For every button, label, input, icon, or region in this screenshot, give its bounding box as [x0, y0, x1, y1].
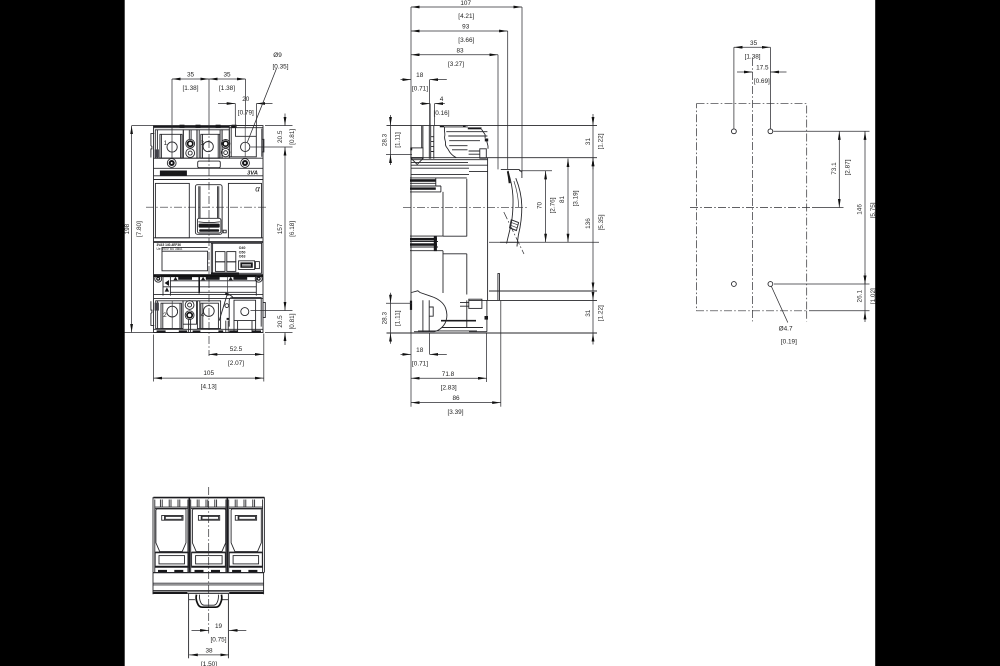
- svg-text:[2.07]: [2.07]: [228, 360, 244, 367]
- svg-text:86: 86: [452, 395, 460, 402]
- mid strip screws: [167, 159, 249, 168]
- svg-text:[1.22]: [1.22]: [598, 133, 605, 149]
- dim 17.5 plan: [737, 65, 787, 86]
- svg-text:70: 70: [536, 202, 543, 210]
- svg-text:[4.13]: [4.13]: [201, 384, 217, 391]
- dim 52.5: [209, 334, 264, 382]
- side centerline: [403, 206, 527, 208]
- svg-text:[0.69]: [0.69]: [754, 78, 770, 85]
- svg-text:3VA: 3VA: [247, 171, 258, 177]
- dim 70: [519, 171, 556, 243]
- plate right panel: [211, 243, 262, 274]
- svg-text:[0.71]: [0.71]: [412, 86, 428, 93]
- terminal 3 box: [197, 130, 222, 158]
- svg-text:136: 136: [585, 218, 592, 229]
- dim 190 height: [121, 126, 154, 333]
- svg-text:[2.87]: [2.87]: [845, 159, 852, 175]
- dim 157 right: [277, 147, 296, 310]
- svg-text:[0.81]: [0.81]: [289, 129, 296, 145]
- dim 105: [154, 335, 264, 391]
- svg-text:O63: O63: [239, 255, 246, 259]
- svg-text:4: 4: [201, 312, 205, 319]
- drilling plan outline: [690, 58, 812, 321]
- side bottom boot: [410, 291, 447, 332]
- pole C cover: [231, 509, 261, 552]
- svg-text:[1.50]: [1.50]: [201, 661, 217, 666]
- dim 18 bottom: [401, 334, 447, 407]
- side fin stack mid: [410, 236, 443, 251]
- terminal 6 lug: [227, 298, 262, 333]
- side escutcheon: [500, 169, 522, 246]
- svg-text:Ø4.7: Ø4.7: [779, 326, 793, 333]
- svg-text:[0.71]: [0.71]: [412, 360, 428, 367]
- dim 28.3 bottom left: [381, 293, 412, 344]
- svg-text:3: 3: [200, 140, 204, 147]
- pole A fins: [155, 500, 188, 509]
- side top lug: [410, 126, 423, 165]
- dim 26.1: [809, 273, 877, 322]
- svg-text:73.1: 73.1: [831, 162, 838, 175]
- dim 107 depth: [411, 0, 522, 172]
- dim 18 top: [401, 72, 447, 125]
- dim 20.5 top right: [251, 114, 297, 148]
- 3VA label: [247, 171, 258, 177]
- side fin stack top: [410, 178, 441, 192]
- pole C fins: [229, 500, 263, 509]
- dim 31 top right: [585, 114, 605, 169]
- svg-text:Ø9: Ø9: [273, 52, 282, 59]
- top module circles a: [183, 130, 197, 158]
- svg-text:31: 31: [585, 138, 592, 146]
- svg-text:20: 20: [242, 96, 250, 103]
- breaker outline front: [154, 126, 264, 333]
- svg-text:81: 81: [559, 196, 566, 204]
- svg-text:[0.79]: [0.79]: [238, 109, 254, 116]
- dim 136: [585, 158, 605, 291]
- handle chute: [195, 185, 222, 235]
- pole B cover: [192, 509, 225, 552]
- terminal 5 cover box: [229, 126, 256, 157]
- dim 83: [411, 47, 498, 169]
- dim 20 slot: [218, 96, 273, 126]
- svg-text:[3.19]: [3.19]: [572, 190, 579, 206]
- svg-text:[0.81]: [0.81]: [289, 313, 296, 329]
- svg-text:[1.38]: [1.38]: [183, 85, 199, 92]
- svg-text:35: 35: [750, 40, 758, 47]
- svg-text:[1.11]: [1.11]: [395, 310, 402, 326]
- dim 93: [411, 24, 508, 170]
- svg-text:18: 18: [416, 347, 424, 354]
- svg-text:[1.11]: [1.11]: [395, 132, 402, 148]
- svg-text:26.1: 26.1: [857, 290, 864, 303]
- svg-text:[2.76]: [2.76]: [549, 197, 556, 213]
- dim 81: [489, 159, 599, 243]
- dim 38: [189, 648, 229, 666]
- svg-text:83: 83: [456, 47, 464, 54]
- dim 35 right poles: [209, 72, 246, 126]
- side top screw access: [429, 126, 486, 159]
- svg-text:[1.22]: [1.22]: [598, 305, 605, 321]
- dim 31 bottom right: [585, 289, 605, 345]
- dim 146: [774, 131, 877, 284]
- bottom view outline: [153, 497, 264, 572]
- svg-text:20.5: 20.5: [277, 130, 284, 143]
- bottom feet tabs: [157, 330, 261, 332]
- svg-text:[3.27]: [3.27]: [448, 61, 464, 68]
- SIEMENS label: [160, 171, 187, 176]
- svg-text:[4.21]: [4.21]: [458, 13, 474, 20]
- terminal 1 box: [155, 130, 184, 158]
- svg-text:2: 2: [163, 312, 167, 319]
- svg-text:[3.66]: [3.66]: [458, 37, 474, 44]
- pole B terminal block: [192, 552, 226, 572]
- body bands: [153, 572, 264, 594]
- svg-text:[0.16]: [0.16]: [434, 110, 450, 117]
- svg-text:[1.38]: [1.38]: [219, 85, 235, 92]
- dim 35 plan: [734, 40, 771, 129]
- svg-text:[1.38]: [1.38]: [745, 53, 761, 60]
- side inner verticals: [436, 178, 467, 328]
- svg-text:[7.80]: [7.80]: [136, 221, 143, 237]
- dim 71.8: [411, 334, 487, 392]
- svg-text:α: α: [255, 185, 260, 194]
- dim 86: [411, 301, 501, 416]
- svg-text:105: 105: [203, 370, 214, 377]
- pole A cover: [156, 509, 186, 552]
- mounting hole bottom right: [768, 282, 773, 287]
- svg-text:35: 35: [187, 72, 195, 79]
- svg-text:[0.19]: [0.19]: [781, 339, 797, 346]
- rating strip: [155, 275, 263, 295]
- svg-text:17.5: 17.5: [756, 65, 769, 72]
- handle grip hatched: [510, 220, 519, 231]
- svg-text:35: 35: [223, 72, 231, 79]
- svg-text:20.5: 20.5: [277, 315, 284, 328]
- right black sidebar: [875, 0, 1000, 666]
- svg-text:[3.39]: [3.39]: [448, 409, 464, 416]
- dim 35 left poles: [172, 72, 209, 158]
- svg-text:93: 93: [462, 24, 470, 31]
- svg-text:4: 4: [440, 96, 444, 103]
- handle axis centerline: [504, 212, 524, 254]
- svg-text:[6.18]: [6.18]: [289, 221, 296, 237]
- side bottom screw: [460, 299, 482, 308]
- plate left texts: [157, 243, 184, 251]
- svg-text:198: 198: [124, 223, 131, 234]
- svg-text:157: 157: [277, 223, 284, 234]
- svg-text:28.3: 28.3: [381, 312, 388, 325]
- mounting hole bottom left: [732, 282, 737, 287]
- top module circles b: [221, 130, 229, 158]
- mounting hole top right: [768, 129, 773, 134]
- svg-text:28.3: 28.3: [381, 133, 388, 146]
- dim 19: [192, 623, 247, 643]
- side outline main lines: [387, 126, 598, 333]
- handle grip: [197, 218, 226, 233]
- svg-text:[5.35]: [5.35]: [598, 214, 605, 230]
- svg-text:52.5: 52.5: [230, 346, 243, 353]
- side foot: [418, 300, 488, 331]
- side top terminal boot: [440, 125, 488, 157]
- left face panel: [155, 183, 189, 237]
- dim 28.3 top left: [381, 115, 412, 165]
- plate label window: [162, 247, 208, 270]
- svg-text:18: 18: [416, 72, 424, 79]
- right face panel: [228, 183, 261, 237]
- bottom view centerline: [208, 487, 210, 634]
- svg-text:19: 19: [215, 623, 223, 630]
- pole C terminal block: [229, 552, 262, 572]
- svg-text:71.8: 71.8: [442, 371, 455, 378]
- svg-text:38: 38: [205, 648, 213, 655]
- dim dia4.7 leader: [771, 286, 797, 346]
- svg-text:[2.83]: [2.83]: [441, 384, 457, 391]
- cable slant edge: [219, 293, 233, 333]
- side ears: [151, 129, 265, 326]
- dim 73.1: [812, 131, 852, 207]
- bottom module circles: [183, 301, 197, 333]
- left black sidebar: [0, 0, 125, 666]
- dim dia9 leader: [247, 52, 288, 142]
- mounting hole top left: [732, 129, 737, 134]
- side bottom lug: [423, 300, 433, 332]
- terminal 4 box: [197, 301, 220, 329]
- svg-text:146: 146: [857, 204, 864, 215]
- center lines front: [146, 79, 268, 356]
- pole B fins: [191, 500, 226, 509]
- svg-text:SIEMENS: SIEMENS: [165, 171, 183, 176]
- svg-text:[0.35]: [0.35]: [273, 64, 289, 71]
- pole A terminal block: [155, 552, 188, 572]
- svg-text:1: 1: [164, 140, 168, 147]
- DIN rail tab: [189, 594, 229, 658]
- svg-text:107: 107: [460, 0, 471, 7]
- side clip detail: [498, 274, 500, 301]
- pole dividers: [188, 498, 229, 573]
- side upper band: [411, 160, 488, 175]
- terminal 2 box: [155, 301, 183, 329]
- svg-text:[0.75]: [0.75]: [211, 636, 227, 643]
- top vent tabs: [180, 125, 237, 128]
- dim 20.5 bottom right: [251, 311, 297, 345]
- dim 4: [420, 96, 450, 126]
- svg-text:31: 31: [585, 309, 592, 317]
